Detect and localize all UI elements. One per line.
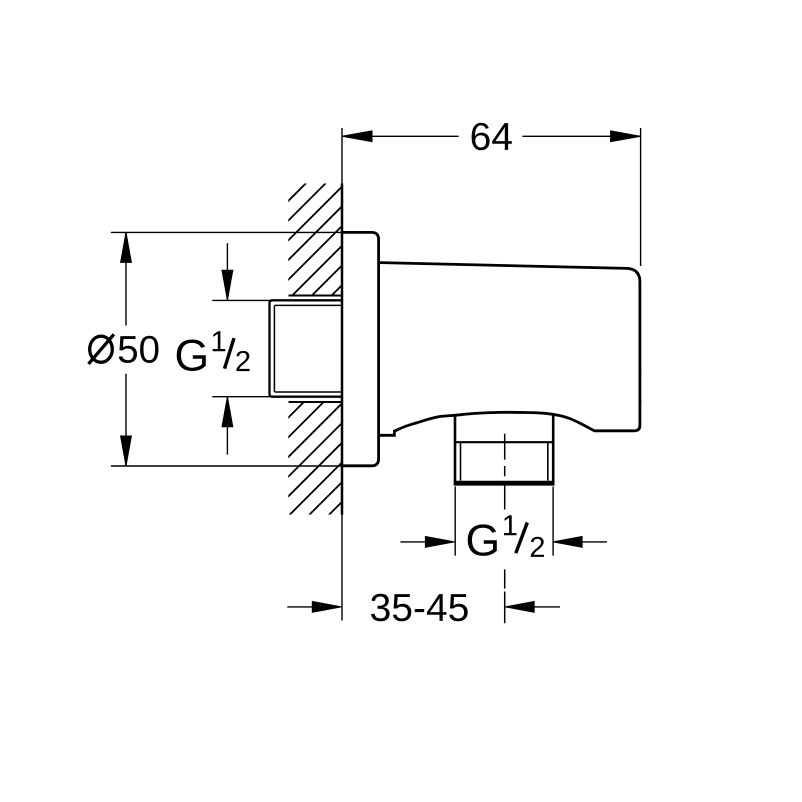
small dim top arrow — [226, 243, 228, 299]
inlet thread box outer — [270, 300, 342, 396]
dim 35-45 line left — [287, 606, 313, 608]
outlet collar line — [455, 441, 553, 443]
dim D50 text — [90, 336, 113, 362]
wall flange — [342, 232, 379, 465]
label G 1/2 left — [177, 340, 206, 372]
dim G12 bottom right extension — [552, 487, 554, 556]
dim D50 bottom extension — [111, 465, 342, 467]
small dim bottom arrow — [226, 398, 228, 455]
body right edge seam nub upper — [640, 373, 642, 375]
dim D50 arrow top — [121, 232, 132, 262]
body outline — [379, 263, 640, 436]
outlet connector right edge — [552, 414, 555, 482]
dim G12 line left — [400, 541, 426, 543]
wall hole edge bottom — [289, 401, 342, 403]
outlet thread inner lines — [461, 442, 548, 480]
dim 64 arrow right — [611, 131, 641, 142]
centerline — [504, 434, 506, 623]
dim G12 line right — [582, 541, 607, 543]
dim 64 arrow left — [342, 131, 372, 142]
outlet connector left edge — [454, 415, 457, 482]
dim D50 line — [125, 232, 127, 466]
wall surface line — [341, 128, 343, 621]
dim 64 right extension — [640, 128, 642, 266]
dim 64 text — [472, 123, 512, 151]
dim D50 arrow bottom — [121, 436, 132, 466]
inlet thread box inner lines — [274, 305, 341, 392]
dim G12 bottom left extension — [454, 487, 456, 556]
small dim top extension — [212, 299, 269, 301]
body right edge seam nub lower — [640, 400, 642, 402]
wall hole edge top — [289, 295, 342, 297]
dim 64 line — [342, 135, 641, 137]
dim 35-45 line right — [533, 606, 560, 608]
wall hatching lines — [0, 140, 704, 540]
dim D50 top extension — [111, 231, 342, 233]
dim 35-45 text — [371, 594, 468, 622]
label G 1/2 bottom — [468, 524, 497, 556]
small dim bottom extension — [212, 396, 269, 398]
outlet thick bottom edge — [454, 481, 555, 486]
